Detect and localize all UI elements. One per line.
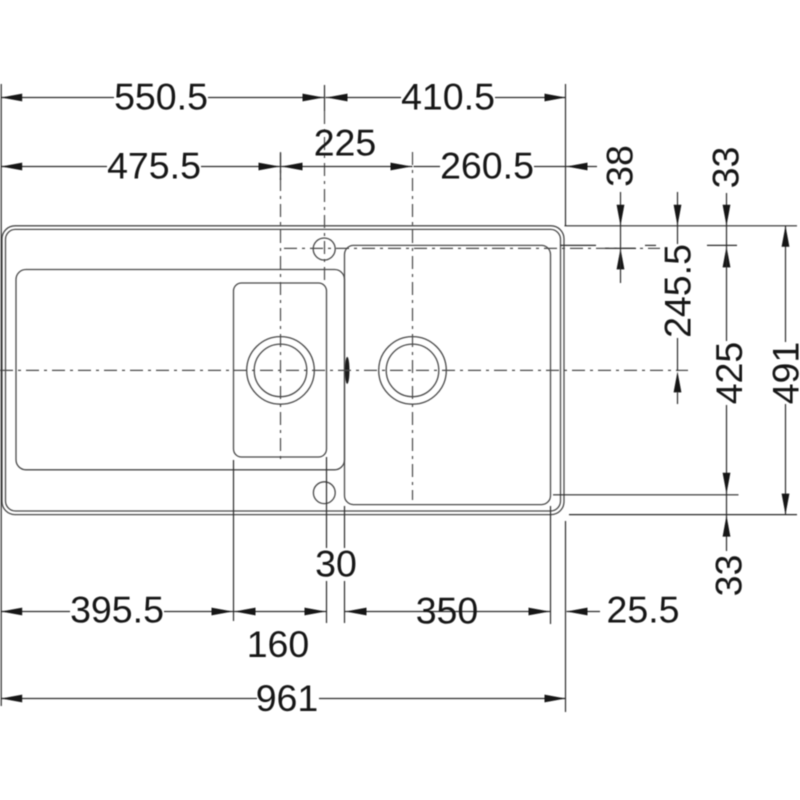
main bowl drain outer (379, 337, 447, 405)
svg-text:225: 225 (314, 122, 377, 164)
dim 225 (281, 122, 413, 171)
dim 491 (765, 226, 800, 515)
faucet line tick at 38 dim (605, 247, 636, 249)
overflow line extension (553, 494, 739, 496)
sink right extension bottom (565, 521, 567, 712)
main bowl (345, 245, 551, 504)
dim 350 (345, 590, 551, 632)
svg-text:425: 425 (708, 342, 750, 405)
sink inner rim (6, 229, 561, 511)
bowl top edge extension (560, 244, 737, 246)
svg-text:25.5: 25.5 (607, 589, 680, 631)
tick at 550.5/410.5 junction (324, 85, 326, 111)
dim 410.5 (326, 76, 566, 118)
svg-text:395.5: 395.5 (70, 589, 164, 631)
dim 395.5 (1, 589, 233, 631)
dim 38 (599, 145, 641, 283)
faucet vertical centerline top (324, 111, 326, 283)
svg-text:30: 30 (315, 543, 357, 585)
svg-text:491: 491 (765, 342, 800, 405)
sink top edge extension (565, 225, 798, 227)
svg-text:260.5: 260.5 (440, 145, 534, 187)
tick at 475.5/225 junction (280, 153, 282, 180)
svg-text:245.5: 245.5 (657, 244, 699, 338)
dim 425 (708, 245, 750, 494)
small drain centerline (280, 152, 282, 460)
overflow slot on bowl wall (345, 357, 350, 384)
svg-text:410.5: 410.5 (401, 76, 495, 118)
dim 475.5 (1, 145, 280, 187)
small bowl (234, 283, 327, 457)
svg-text:961: 961 (256, 677, 319, 719)
faucet horizontal centerline (284, 247, 660, 249)
horizontal centerline (0, 369, 688, 371)
main bowl drain inner (386, 344, 439, 397)
dim 25.5 (567, 589, 680, 631)
small bowl drain inner (254, 344, 307, 397)
svg-text:350: 350 (416, 590, 479, 632)
right extension line x=565 (565, 84, 567, 226)
left extension line (0, 84, 2, 706)
dim 961 (1, 677, 565, 719)
svg-text:550.5: 550.5 (114, 76, 208, 118)
svg-text:475.5: 475.5 (107, 145, 201, 187)
dim 245.5 (657, 192, 699, 404)
svg-text:33: 33 (705, 147, 747, 189)
svg-text:38: 38 (599, 145, 641, 187)
dim 260.5 (414, 145, 598, 187)
drainboard (16, 270, 345, 470)
svg-text:33: 33 (708, 555, 750, 597)
main bowl right extension (550, 506, 552, 624)
dim 550.5 (1, 76, 324, 118)
small bowl drain outer (247, 337, 315, 405)
main drain centerline (412, 152, 414, 500)
small bowl left extension (233, 460, 235, 621)
dim 160 (234, 608, 327, 665)
dim 30 (315, 543, 357, 585)
overflow hole (313, 482, 335, 504)
faucet hole (313, 238, 335, 260)
small bowl right extension (326, 457, 328, 623)
sink outer edge (2, 226, 564, 515)
svg-text:160: 160 (247, 623, 310, 665)
sink bottom edge extension (569, 514, 797, 516)
dim 33 bottom (708, 495, 750, 597)
main bowl left extension (344, 506, 346, 623)
dim 33 top (705, 147, 747, 246)
